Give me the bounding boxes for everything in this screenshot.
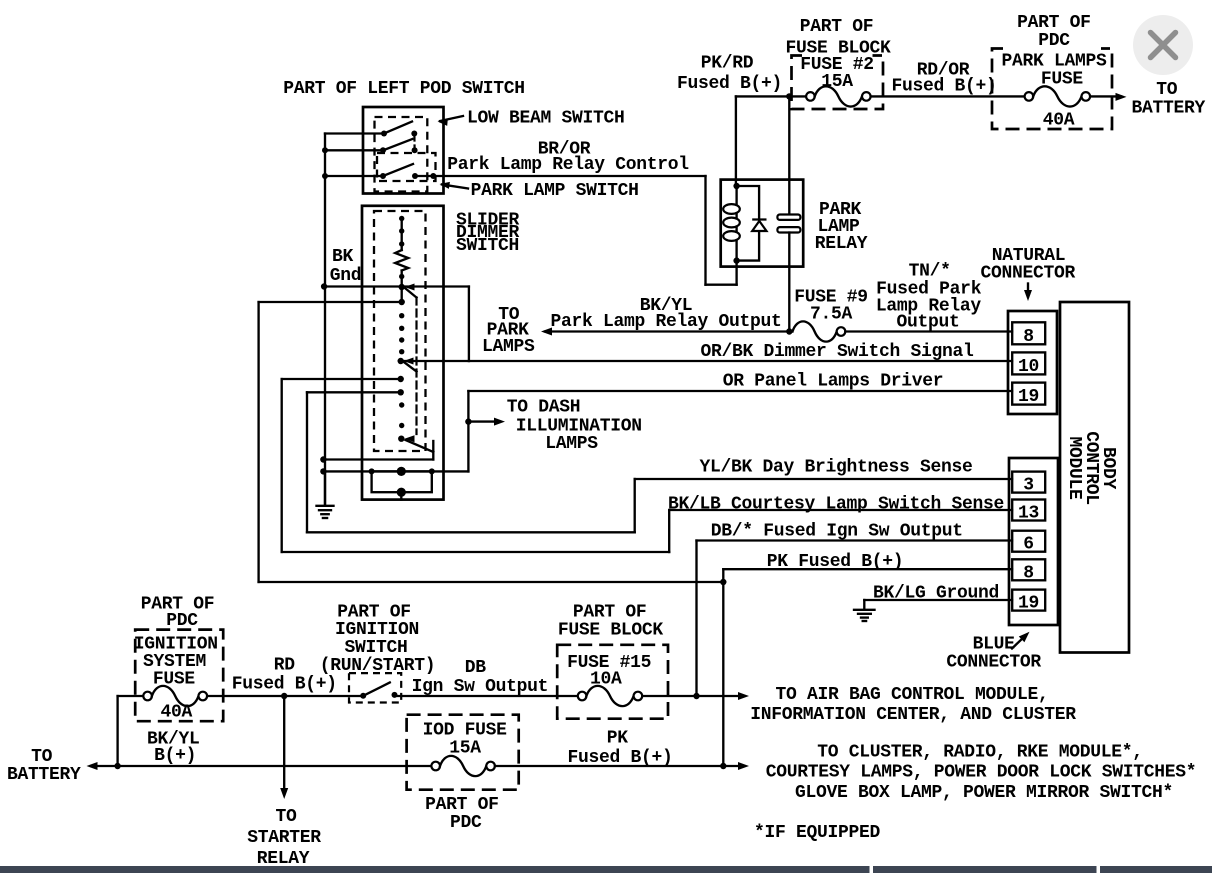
svg-text:PART OF: PART OF — [800, 17, 874, 37]
svg-text:Park Lamp Relay Control: Park Lamp Relay Control — [447, 155, 689, 175]
svg-text:FUSE BLOCK: FUSE BLOCK — [558, 621, 664, 641]
bottom toolbar segment 2 — [873, 866, 1097, 873]
callout line LOW BEAM SWITCH — [440, 116, 463, 121]
node slider contact — [399, 216, 404, 221]
ignition switch dashed box — [349, 673, 401, 702]
node ground-row459 junction — [320, 456, 326, 462]
svg-text:TO: TO — [275, 807, 297, 827]
node slider wiper1 junction — [399, 284, 405, 290]
switch blade park lamp — [383, 164, 413, 176]
fuse IOD left terminal — [431, 762, 440, 771]
node slider contact — [399, 326, 404, 331]
pin 19 natural box — [1012, 383, 1045, 405]
svg-text:Output: Output — [896, 313, 959, 333]
svg-text:8: 8 — [1023, 327, 1034, 347]
node battery junction — [114, 763, 120, 769]
fuse park lamps element — [1033, 86, 1081, 106]
pin 8 natural box — [1012, 322, 1045, 344]
svg-text:LAMPS: LAMPS — [482, 337, 535, 357]
svg-text:IGNITION: IGNITION — [335, 620, 419, 640]
ignition system fuse dashed box — [135, 630, 223, 722]
callout line PARK LAMP SWITCH — [442, 185, 468, 189]
svg-text:PART OF: PART OF — [573, 603, 647, 623]
svg-text:8: 8 — [1023, 563, 1034, 583]
ground bus vertical — [324, 134, 326, 505]
wire w1 row133 — [325, 132, 384, 134]
svg-text:PARK LAMP SWITCH: PARK LAMP SWITCH — [471, 181, 639, 201]
wire bundle v2 — [281, 379, 283, 552]
svg-text:YL/BK Day Brightness Sense: YL/BK Day Brightness Sense — [699, 458, 972, 478]
wire park lamp relay control — [415, 175, 706, 177]
wire row392 to bundle — [307, 391, 401, 393]
svg-text:SWITCH: SWITCH — [344, 638, 407, 658]
wiper linkage dashed — [415, 298, 417, 435]
node slider row392 junction — [398, 389, 404, 395]
svg-text:STARTER: STARTER — [247, 828, 321, 848]
svg-text:PART OF: PART OF — [1017, 13, 1091, 33]
svg-text:CONNECTOR: CONNECTOR — [946, 652, 1041, 672]
park lamp switch dashed box — [377, 153, 436, 181]
svg-text:15A: 15A — [821, 72, 853, 92]
fuse F15 left terminal — [578, 692, 587, 701]
relay coil line — [735, 186, 737, 261]
svg-text:SWITCH: SWITCH — [456, 236, 519, 256]
wire wiper2 row — [401, 360, 469, 362]
fuse IOD element — [440, 756, 486, 776]
node coil bottom — [733, 257, 739, 263]
body control module box — [1060, 302, 1129, 653]
node DB junction — [693, 693, 699, 699]
node ign switch pivot — [360, 693, 366, 699]
relay coil K1 loops — [723, 204, 740, 241]
natural connector arrow — [1027, 284, 1029, 296]
wiper2 arrow — [404, 358, 414, 365]
wire BK/LB courtesy — [669, 509, 1012, 511]
park lamp relay box — [721, 180, 804, 267]
node ign switch contact — [392, 692, 398, 698]
wire iod out — [495, 765, 744, 767]
wiper3 arrow — [405, 435, 415, 442]
svg-text:RELAY: RELAY — [257, 849, 310, 869]
svg-text:*IF EQUIPPED: *IF EQUIPPED — [754, 823, 881, 843]
svg-text:Fused B(+): Fused B(+) — [567, 748, 672, 768]
node low beam pivot — [381, 131, 387, 137]
svg-text:MODULE: MODULE — [1064, 436, 1084, 500]
node common bottom big — [397, 488, 406, 497]
pin 3 box — [1012, 472, 1045, 493]
relay contact plate lower — [777, 227, 800, 232]
wire panel lamps riser — [467, 391, 469, 471]
iod fuse dashed box — [407, 715, 519, 790]
wire ign fuse to switch — [207, 695, 363, 697]
relay contact wire lower — [788, 233, 790, 332]
switch blade middle — [383, 139, 412, 150]
wire w3 row176 — [325, 175, 383, 177]
wire YL/BK day brightness — [635, 478, 1012, 480]
wire DB fused ign sw output — [697, 539, 1013, 541]
svg-text:LOW BEAM SWITCH: LOW BEAM SWITCH — [467, 109, 625, 129]
fuse F15 right terminal — [634, 692, 643, 701]
node relay contact top — [786, 93, 792, 99]
ground symbol pod — [317, 471, 334, 518]
node PK bundle junction — [720, 579, 726, 585]
wiper1 arrow — [405, 284, 415, 291]
relay coil subbox — [737, 186, 760, 261]
wire dimmer signal drop — [468, 287, 470, 362]
fuse F9 element — [793, 321, 837, 341]
node w2 junction — [322, 147, 328, 153]
resistor R slider — [395, 250, 408, 271]
svg-text:INFORMATION CENTER, AND CLUSTE: INFORMATION CENTER, AND CLUSTER — [750, 705, 1076, 725]
fuse block15 dashed box — [557, 645, 668, 719]
node slider contact — [399, 402, 404, 407]
node fuse9 junction — [786, 328, 792, 334]
pdc dashed box — [992, 49, 1112, 130]
svg-text:BATTERY: BATTERY — [7, 765, 81, 785]
svg-text:BATTERY: BATTERY — [1132, 99, 1206, 119]
node dash illumination tap — [465, 418, 471, 424]
svg-text:Fused B(+): Fused B(+) — [232, 674, 337, 694]
node park contact — [412, 173, 418, 179]
svg-text:PDC: PDC — [166, 611, 198, 631]
fuse ign element — [152, 686, 199, 706]
wire ground to wiper3 row — [323, 458, 433, 460]
node slider wiper2 junction — [398, 358, 404, 364]
natural connector box — [1008, 311, 1057, 414]
slider common rect — [372, 471, 432, 492]
wire bundle v2 bottom — [282, 551, 670, 553]
svg-text:OR/BK Dimmer Switch Signal: OR/BK Dimmer Switch Signal — [700, 342, 974, 362]
node low beam contact — [411, 131, 417, 137]
wire to battery bottom — [91, 765, 432, 767]
wire bundle v3 bottom — [307, 531, 635, 533]
wire relay coil feed — [735, 96, 737, 186]
fuse F15 element — [586, 686, 633, 706]
blue connector callout arrow — [1012, 636, 1025, 649]
wire BK/LG ground — [864, 599, 1012, 601]
svg-text:13: 13 — [1018, 504, 1039, 524]
svg-text:Fused B(+): Fused B(+) — [677, 74, 782, 94]
diode D1 — [752, 220, 766, 232]
node slider contact — [399, 349, 404, 354]
wire fuse2 to pdc — [871, 95, 1025, 97]
node slider wiper3 — [398, 436, 404, 442]
node park pivot — [380, 173, 386, 179]
wire OR/BK dimmer switch signal — [469, 360, 1012, 362]
wire bundle v1 — [257, 302, 259, 582]
svg-text:GLOVE BOX LAMP, POWER MIRROR S: GLOVE BOX LAMP, POWER MIRROR SWITCH* — [795, 783, 1173, 803]
svg-text:OR Panel Lamps Driver: OR Panel Lamps Driver — [723, 372, 944, 392]
wire w2 row150 — [325, 149, 383, 151]
svg-text:PK: PK — [607, 729, 629, 749]
relay contact wire upper — [788, 96, 790, 214]
wire ign sw output — [396, 695, 578, 697]
wire pin13 riser — [668, 510, 670, 552]
svg-text:COURTESY LAMPS, POWER DOOR LOC: COURTESY LAMPS, POWER DOOR LOCK SWITCHES… — [766, 763, 1197, 783]
wire control under relay — [706, 284, 737, 286]
wire control to coil — [735, 261, 737, 285]
svg-text:Fused B(+): Fused B(+) — [891, 77, 996, 97]
close button — [1133, 15, 1193, 75]
wire PK fused b+ — [723, 568, 1012, 570]
fuse block2 dashed box — [792, 56, 884, 110]
svg-text:Park Lamp Relay Output: Park Lamp Relay Output — [550, 312, 781, 332]
slider feed line — [401, 219, 403, 251]
node slider contact — [399, 228, 404, 233]
node ground-row471 junction — [320, 468, 326, 474]
wire to park lamps — [545, 330, 789, 332]
node RD junction — [281, 693, 287, 699]
svg-text:BK/LG Ground: BK/LG Ground — [873, 584, 999, 604]
wire rowB to bundle — [259, 301, 402, 303]
wire common stub — [400, 492, 402, 499]
pin 6 box — [1012, 531, 1045, 552]
svg-text:IOD FUSE: IOD FUSE — [423, 721, 508, 741]
relay contact plate upper — [777, 215, 800, 220]
svg-text:PART OF LEFT POD SWITCH: PART OF LEFT POD SWITCH — [283, 79, 525, 99]
svg-text:RELAY: RELAY — [815, 234, 868, 254]
slider dimmer switch box — [362, 206, 444, 500]
svg-text:RD: RD — [274, 656, 296, 676]
svg-text:10: 10 — [1018, 357, 1039, 377]
fuse IOD right terminal — [486, 762, 495, 771]
node slider contact — [399, 241, 404, 246]
node slider contact — [399, 313, 404, 318]
wire to battery top — [1090, 95, 1121, 97]
svg-text:40A: 40A — [1043, 111, 1075, 131]
svg-text:3: 3 — [1023, 476, 1034, 496]
fuse ign right terminal — [199, 692, 208, 701]
wire pin3 riser — [634, 479, 636, 532]
wire DB riser — [695, 541, 697, 697]
pin 13 box — [1012, 500, 1045, 521]
wire battery drop — [116, 696, 118, 766]
node control exit — [430, 173, 436, 179]
bottom toolbar segment 3 — [1100, 866, 1212, 873]
fuse ign left terminal — [143, 692, 152, 701]
dashed link contacts — [413, 134, 415, 151]
svg-text:DB/* Fused Ign Sw Output: DB/* Fused Ign Sw Output — [711, 522, 963, 542]
svg-text:PDC: PDC — [1038, 31, 1070, 51]
svg-text:CONNECTOR: CONNECTOR — [981, 264, 1076, 284]
fuse F9 terminal — [837, 327, 846, 336]
node common top big — [397, 467, 406, 476]
slider line below resistor — [401, 271, 403, 303]
node middle contact — [412, 147, 418, 153]
svg-text:19: 19 — [1018, 594, 1039, 614]
switch blade low beam — [384, 122, 412, 134]
node common right — [429, 468, 435, 474]
svg-text:40A: 40A — [161, 703, 193, 723]
fuse F2 left terminal — [806, 92, 815, 101]
wire row379 to bundle — [282, 378, 401, 380]
fuse park lamps right terminal — [1082, 92, 1091, 101]
svg-text:Gnd: Gnd — [330, 266, 362, 286]
wire control drop — [704, 176, 706, 285]
svg-text:TN/*: TN/* — [909, 262, 951, 282]
node BK Gnd junction — [321, 283, 327, 289]
node coil top — [733, 183, 739, 189]
pin 8 blue box — [1012, 559, 1045, 580]
svg-text:Ign Sw Output: Ign Sw Output — [412, 677, 549, 697]
node PK bottom junction — [720, 763, 726, 769]
wire ign fuse left — [118, 695, 144, 697]
node slider rowB junction — [399, 299, 405, 305]
wire wiper1 row A — [324, 285, 469, 287]
slider dimmer dashed box — [374, 211, 426, 451]
fuse park lamps left terminal — [1025, 92, 1034, 101]
wire pkrd feed — [736, 95, 806, 97]
svg-text:TO CLUSTER, RADIO, RKE MODULE*: TO CLUSTER, RADIO, RKE MODULE*, — [817, 743, 1143, 763]
svg-text:6: 6 — [1023, 535, 1034, 555]
node middle pivot — [380, 147, 386, 153]
svg-text:7.5A: 7.5A — [810, 305, 853, 325]
svg-text:PDC: PDC — [450, 813, 482, 833]
ground symbol bcm — [854, 600, 875, 621]
fuse F2 right terminal — [862, 92, 871, 101]
left pod switch box — [363, 107, 444, 194]
wire dash illumination arrow — [468, 420, 500, 422]
svg-text:PARK LAMPS: PARK LAMPS — [1001, 52, 1107, 72]
svg-text:BK/LB Courtesy Lamp Switch Sen: BK/LB Courtesy Lamp Switch Sense — [668, 495, 1004, 515]
fuse F2 element — [815, 86, 862, 106]
svg-text:B(+): B(+) — [154, 746, 196, 766]
svg-text:LAMPS: LAMPS — [545, 434, 598, 454]
wire fuse15 out — [642, 695, 743, 697]
node slider contact — [399, 274, 404, 279]
wire bundle v3 — [306, 392, 308, 532]
wire PK riser — [722, 569, 724, 766]
svg-text:19: 19 — [1018, 387, 1039, 407]
svg-text:TO: TO — [1156, 80, 1178, 100]
pin 10 box — [1012, 352, 1045, 374]
node slider contact — [399, 337, 404, 342]
wire bundle v1 bottom — [259, 581, 724, 583]
low beam switch dashed box — [375, 117, 428, 192]
wire slider common row — [323, 470, 468, 472]
svg-text:FUSE BLOCK: FUSE BLOCK — [785, 38, 891, 58]
wire OR panel lamps driver — [468, 390, 1012, 392]
svg-text:DB: DB — [465, 658, 487, 678]
bottom toolbar segment 1 — [0, 866, 870, 873]
svg-text:PK Fused B(+): PK Fused B(+) — [767, 552, 904, 572]
blue connector box — [1009, 458, 1058, 625]
switch blade ignition — [363, 683, 390, 696]
wire starter drop — [283, 696, 285, 793]
node common left — [369, 468, 375, 474]
svg-text:BK: BK — [332, 247, 354, 267]
svg-text:TO AIR BAG CONTROL MODULE,: TO AIR BAG CONTROL MODULE, — [775, 685, 1048, 705]
wire fuse9 to pin8 — [845, 330, 1012, 332]
svg-text:PK/RD: PK/RD — [701, 54, 754, 74]
node slider row379 junction — [398, 376, 404, 382]
pin 19 blue box — [1012, 590, 1045, 611]
wiper3 contact bar — [432, 441, 434, 460]
node slider contact — [399, 423, 404, 428]
node w3 junction — [322, 173, 328, 179]
svg-text:TO DASH: TO DASH — [507, 398, 581, 418]
